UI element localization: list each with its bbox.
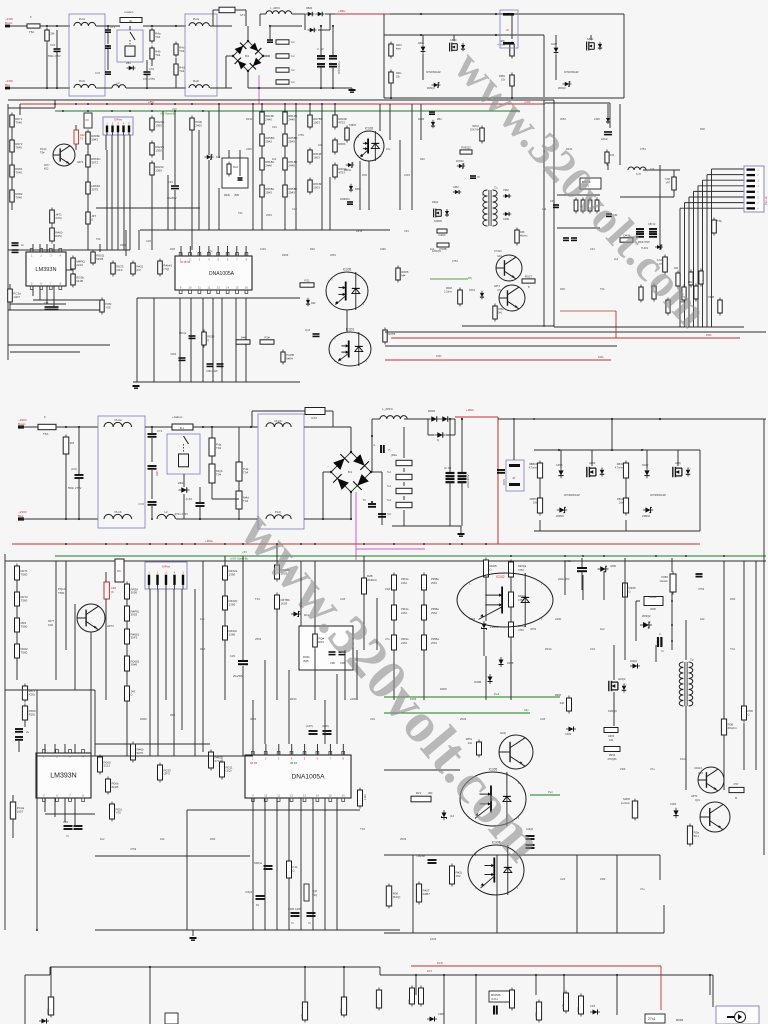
- svg-text:#30b: #30b: [598, 356, 604, 359]
- svg-text:ZB1: ZB1: [126, 61, 131, 65]
- wire corner: [7, 104, 9, 108]
- wire dip4 B: [173, 589, 175, 676]
- svg-text:30#3: 30#3: [91, 137, 98, 141]
- svg-text:R027: R027: [525, 275, 533, 279]
- wire bridge bot: [247, 71, 249, 88]
- svg-text:CM61: CM61: [503, 218, 510, 221]
- wire lm pin t1: [32, 244, 34, 252]
- svg-text:L_APFC: L_APFC: [270, 6, 280, 10]
- wire dna pin t8: [245, 246, 247, 256]
- svg-text:PC1b: PC1b: [40, 147, 47, 151]
- svg-text:M#2B: M#2B: [676, 1018, 683, 1022]
- transistor Q31: [499, 285, 525, 311]
- resistor R072 B: [15, 590, 29, 609]
- filter box PL2: [185, 14, 217, 96]
- junction k1b 2: [671, 624, 673, 626]
- svg-text:550n 275V: 550n 275V: [48, 54, 61, 58]
- wire right v B: [723, 735, 725, 790]
- wire lm pin t3: [46, 244, 48, 252]
- svg-text:K2R0R: K2R0R: [434, 220, 442, 223]
- IC CT1 box B: [299, 626, 353, 670]
- inductor TuH: [628, 167, 646, 170]
- wire C v444: [443, 995, 445, 1024]
- resistor R4a B: [209, 436, 222, 459]
- junction: [415, 974, 417, 976]
- wire gt2 r B: [325, 410, 333, 412]
- svg-text:400V: 400V: [502, 479, 506, 485]
- wire bridge left: [226, 55, 233, 57]
- svg-text:R0Q2: R0Q2: [650, 595, 657, 599]
- resistor Rm1b: [283, 132, 298, 149]
- wire dip3: [117, 135, 119, 186]
- wire opto dn: [368, 161, 370, 210]
- wire CX2 up: [146, 60, 148, 71]
- svg-text:PL1b: PL1b: [79, 79, 86, 83]
- wire CY1 low: [107, 33, 109, 44]
- svg-text:470n 275V: 470n 275V: [174, 512, 188, 516]
- capacitor C15 B: [238, 661, 248, 664]
- svg-text:D#2: D#2: [311, 302, 316, 305]
- svg-text:M9C)a: M9C)a: [254, 861, 262, 865]
- wire A y208: [96, 207, 140, 209]
- svg-text:PL2a: PL2a: [193, 17, 200, 21]
- svg-text:M9C)a: M9C)a: [179, 333, 187, 335]
- junction C rail: [304, 966, 306, 968]
- filter box PL1: [69, 14, 105, 96]
- wire row B744: [95, 743, 210, 745]
- junction green rail A: [202, 110, 204, 112]
- wire C drop l: [304, 967, 306, 1000]
- wire m03: [261, 170, 263, 185]
- svg-text:10k: 10k: [542, 207, 547, 211]
- resistor G4: [682, 285, 686, 303]
- svg-text:3053: 3053: [330, 253, 336, 257]
- svg-text:A#y: A#y: [524, 708, 529, 712]
- wire drop right B: [659, 855, 661, 880]
- junction: [371, 501, 373, 503]
- resistor A62 red: [74, 130, 79, 144]
- diode D806: [421, 44, 426, 54]
- svg-text:C2#: C2#: [540, 717, 546, 721]
- capacitor C302b B: [526, 845, 535, 848]
- junction red rail A: [284, 103, 286, 105]
- junction: [258, 87, 260, 89]
- wire A y230a: [140, 229, 200, 231]
- wire col3: [11, 177, 13, 190]
- capacitor CX2: [144, 72, 151, 74]
- svg-text:G8Q0: G8Q0: [450, 39, 457, 42]
- filter box PL2 B: [258, 414, 304, 529]
- resistor RG3 B: [313, 632, 325, 650]
- wire right v B: [723, 640, 725, 719]
- wire dip2 B: [157, 589, 159, 632]
- svg-text:7u: 7u: [66, 834, 69, 838]
- junction green rail A: [111, 110, 113, 112]
- resistor R66C: [86, 153, 102, 170]
- wire red380 B: [455, 416, 498, 418]
- resistor R21 B: [411, 796, 431, 802]
- wire dna mesh v B: [252, 798, 254, 930]
- svg-text:30F3: 30F3: [131, 636, 138, 640]
- wire sec left edge: [383, 14, 385, 98]
- junction green rail A: [87, 110, 89, 112]
- wire aux v: [607, 104, 609, 118]
- wire fieldv A: [329, 177, 331, 230]
- wire C right drop: [712, 975, 714, 1007]
- svg-text:ZD9Q2: ZD9Q2: [642, 614, 651, 618]
- svg-text:Q31: Q31: [695, 798, 700, 802]
- svg-text:3t7N03WG0Z: 3t7N03WG0Z: [426, 71, 441, 74]
- svg-text:T04: T04: [96, 237, 101, 241]
- wire m02: [261, 146, 263, 158]
- capacitor C7#: [470, 176, 476, 178]
- wire dna pin B3: [278, 744, 280, 755]
- svg-text:C#62: C#62: [453, 186, 459, 189]
- svg-text:40k: 40k: [428, 791, 433, 795]
- resistor K11 B: [287, 859, 298, 881]
- svg-text:(): (): [748, 712, 750, 716]
- wire c87c: [87, 194, 89, 212]
- svg-text:24#0: 24#0: [288, 163, 295, 167]
- wire fieldv A: [379, 104, 381, 131]
- resistor PC3a: [8, 287, 21, 305]
- svg-text:J##: J##: [241, 336, 246, 340]
- resistor H0662: [86, 180, 101, 197]
- inductor PL1a: [74, 22, 96, 26]
- wire lm pin b4 B: [74, 798, 76, 827]
- wire dna mesh v B: [300, 798, 302, 930]
- wire c6 dn: [332, 67, 334, 88]
- junction B ac rail: [151, 518, 153, 520]
- svg-text:C0б1: C0б1: [670, 802, 677, 806]
- svg-text:24#0: 24#0: [265, 163, 272, 167]
- wire right v B: [685, 706, 687, 750]
- svg-text:D9Q2: D9Q2: [630, 659, 638, 663]
- svg-text:(F3: (F3: [136, 268, 141, 272]
- svg-text:4753: 4753: [452, 259, 458, 263]
- resistor P00B: [437, 243, 449, 251]
- svg-text:C2#: C2#: [292, 207, 297, 211]
- svg-text:+5V Stand-By: +5V Stand-By: [160, 113, 176, 116]
- terminal live B: [18, 425, 24, 428]
- svg-text:4753: 4753: [518, 568, 524, 572]
- diode C#0A B: [558, 468, 563, 478]
- resistor G2: [689, 270, 693, 288]
- wire red drop: [615, 311, 617, 338]
- wire fieldv B: [252, 700, 254, 744]
- resistor R011 B: [220, 760, 233, 780]
- wire fieldv A: [218, 104, 220, 158]
- wire right v B: [755, 561, 757, 770]
- wire aux v2: [607, 164, 609, 170]
- wire m13: [284, 170, 286, 185]
- wire zd up B: [485, 577, 487, 621]
- svg-text:47u: 47u: [386, 147, 391, 151]
- resistor R810: [389, 42, 393, 59]
- wire right v B: [582, 575, 584, 600]
- zener ZD803: [432, 83, 441, 88]
- wire vert: [309, 104, 311, 115]
- junction: [151, 426, 153, 428]
- svg-text:R#2: R#2: [310, 247, 315, 251]
- wire row B690: [5, 689, 37, 691]
- svg-text:ZD#01: ZD#01: [490, 625, 499, 629]
- wire R1 down: [46, 43, 48, 88]
- svg-text:DNA1005A: DNA1005A: [292, 774, 326, 781]
- wire c15 dn: [174, 190, 176, 230]
- wire j1 up B: [513, 419, 515, 460]
- wire box bottom: [462, 325, 554, 327]
- junction B rail: [603, 555, 605, 557]
- wire lapfc l B: [372, 418, 380, 420]
- resistor R8B15 B: [537, 461, 542, 481]
- aux connector box: [500, 10, 518, 48]
- wire C top rail right: [380, 974, 713, 976]
- capacitor CX2 B: [196, 503, 205, 506]
- svg-text:GT1: GT1: [240, 13, 246, 17]
- diode D#0B B: [488, 674, 493, 684]
- capacitor CJ B: [497, 470, 505, 473]
- wire stair c2: [685, 202, 745, 204]
- capacitor C)1Z: [313, 334, 320, 336]
- resistor G7: [652, 284, 656, 302]
- svg-text:2503: 2503: [120, 243, 126, 247]
- svg-text:25б3: 25б3: [431, 581, 437, 585]
- svg-text:5#0#: 5#0#: [286, 357, 293, 361]
- svg-text:T30): T30): [717, 220, 722, 223]
- svg-text:C3#6 C2#6: C3#6 C2#6: [206, 371, 218, 373]
- svg-text:7C: 7C: [363, 498, 366, 502]
- wire g2 dn: [511, 86, 513, 98]
- svg-text:ZB1: ZB1: [178, 481, 184, 485]
- capacitor C15: [171, 186, 179, 189]
- IC standby box: [580, 178, 601, 189]
- junction B ac rail: [78, 518, 80, 520]
- svg-text:R843: R843: [617, 462, 624, 466]
- svg-text:P#): P#): [468, 277, 472, 280]
- ground gA2: [133, 386, 140, 388]
- wire row B756: [37, 755, 253, 757]
- svg-text:Blue: Blue: [5, 83, 11, 87]
- resistor R0b: [333, 138, 346, 155]
- junction: [443, 974, 445, 976]
- resistor R963 B: [604, 747, 620, 752]
- junction: [65, 426, 67, 428]
- wire vert: [208, 111, 210, 155]
- svg-text:M#0б: M#0б: [623, 797, 630, 801]
- wire fieldv B: [173, 676, 175, 756]
- bridge rectifier Br1 B: [330, 451, 372, 493]
- svg-text:P37: P37: [734, 782, 739, 786]
- svg-text:5-2: 5-2: [387, 498, 391, 502]
- resistor P2T B: [416, 882, 430, 905]
- junction B top rail: [449, 418, 451, 420]
- diode D962: [503, 194, 511, 198]
- wire vert: [208, 160, 210, 230]
- svg-text:C#1: C#1: [272, 125, 277, 129]
- junction red rail A: [174, 103, 176, 105]
- svg-text:A5T3: A5T3: [691, 794, 698, 798]
- wire bus bottom right B: [384, 854, 660, 856]
- svg-text:R#2Qa: R#2Qa: [518, 564, 527, 568]
- svg-text:T04: T04: [360, 827, 365, 831]
- wire top right drop: [609, 103, 611, 128]
- wire mc1 B: [224, 580, 226, 596]
- svg-text:D#0#: D#0#: [282, 253, 289, 257]
- wire box edge1: [543, 100, 545, 327]
- optocoupler IC301: [329, 328, 371, 367]
- svg-text:R#2: R#2: [420, 157, 425, 161]
- svg-text:(54Q): (54Q): [393, 895, 401, 899]
- svg-text:R21: R21: [416, 791, 422, 795]
- IC DNA1005A U1 B: [245, 752, 351, 802]
- wire dna mesh v B: [324, 798, 326, 930]
- wire field v B: [224, 556, 226, 566]
- svg-text:D6: D6: [86, 118, 90, 122]
- svg-text:4.7w/m: 4.7w/m: [529, 466, 537, 470]
- thermistor GT1: [219, 7, 235, 13]
- wire lm pin b1 A: [32, 286, 34, 296]
- svg-text:IC305: IC305: [343, 268, 352, 272]
- svg-text:M#: M#: [401, 273, 405, 277]
- capacitor Cpfc B: [381, 445, 384, 453]
- wire lowbus1: [679, 208, 681, 327]
- wire v A3: [125, 230, 127, 256]
- wire fieldv B: [149, 610, 151, 756]
- resistor R22b B: [223, 594, 238, 613]
- junction B top rail: [533, 418, 535, 420]
- svg-text:TuH: TuH: [636, 173, 641, 176]
- svg-text:Y05: Y05: [105, 305, 111, 309]
- svg-text:#6ohm: #6ohm: [728, 726, 738, 730]
- svg-text:K2NQ6: K2NQ6: [608, 709, 617, 713]
- wire field v B: [276, 609, 278, 700]
- resistor R66b B: [131, 742, 145, 763]
- svg-text:3t7N03WG0Z: 3t7N03WG0Z: [650, 493, 666, 497]
- wire fieldv B: [74, 604, 76, 690]
- svg-text:1B 2B 3B: 1B 2B 3B: [180, 261, 191, 264]
- svg-text:30T2: 30T2: [91, 160, 98, 164]
- wire vert: [106, 150, 108, 250]
- wire g1 dn: [390, 84, 392, 98]
- svg-text:Brown: Brown: [5, 21, 13, 25]
- wire field v B: [242, 700, 244, 756]
- resistor R8B15b B: [537, 496, 542, 516]
- junction B rail: [242, 543, 244, 545]
- wire dip1 B: [149, 589, 151, 610]
- wire dna mesh v: [153, 298, 155, 382]
- svg-text:PL2b: PL2b: [193, 79, 200, 83]
- svg-text:A#73: A#73: [77, 160, 84, 164]
- mosfet Q800: [450, 43, 458, 52]
- resistor R4d: [174, 62, 185, 78]
- wire row join1: [8, 249, 130, 251]
- svg-text:15б): 15б): [46, 1008, 50, 1014]
- svg-text:~230V: ~230V: [18, 418, 27, 422]
- resistor R4x1 B: [396, 460, 412, 465]
- aux pin bar2: [503, 42, 514, 45]
- resistor RB1: [510, 73, 514, 89]
- capacitor CX1: [54, 49, 61, 51]
- wire C jog: [379, 967, 381, 975]
- inductor PL2b B: [266, 423, 291, 427]
- svg-text:25#3: 25#3: [288, 190, 295, 194]
- svg-text:B: B: [735, 796, 737, 800]
- resistor R06b: [86, 130, 101, 147]
- zener ZD001 B: [482, 621, 487, 631]
- svg-text:C1913: C1913: [694, 766, 702, 770]
- IC LM393N U2 B: [36, 750, 91, 802]
- DIP switch SW1: [103, 117, 133, 135]
- terminal live: [5, 25, 10, 28]
- svg-text:24б3: 24б3: [401, 641, 407, 645]
- svg-text:C.: C.: [659, 632, 662, 636]
- wire bridge top B: [350, 427, 352, 452]
- resistor R60: [50, 226, 63, 244]
- svg-text:G7): G7): [497, 289, 501, 292]
- wire cx2 up B: [199, 487, 201, 502]
- wire to filter2 B: [176, 518, 258, 520]
- wire m04: [261, 197, 263, 230]
- wire a62 dn: [75, 144, 77, 150]
- wire pc10 B: [393, 590, 395, 605]
- svg-text:R#1b: R#1b: [545, 647, 552, 651]
- wire gt2 drop2 B: [332, 411, 334, 427]
- wire bottom right bus: [554, 326, 744, 328]
- capacitor C3#6: [207, 364, 214, 366]
- wire dna mesh v: [221, 298, 223, 382]
- wire dip1: [105, 135, 107, 150]
- capacitor CX1 B: [75, 475, 84, 478]
- wire GT2 left: [213, 9, 219, 11]
- svg-text:0-2: 0-2: [291, 55, 295, 58]
- svg-text:2503: 2503: [400, 837, 407, 841]
- resistor PC3a B: [10, 800, 24, 822]
- wire bridge out: [263, 55, 270, 57]
- wire rc1 B: [510, 607, 512, 622]
- svg-text:T04: T04: [155, 35, 161, 39]
- junction: [332, 87, 334, 89]
- svg-text:1360: 1360: [155, 148, 162, 152]
- svg-text:3t7N03WG0Z: 3t7N03WG0Z: [564, 493, 580, 497]
- wire stair c6: [703, 179, 745, 181]
- svg-text:T04: T04: [179, 69, 185, 73]
- resistor J7: [86, 210, 97, 227]
- wire +380v red: [335, 13, 352, 15]
- resistor P5B1 B: [422, 603, 427, 623]
- svg-text:G33: G33: [698, 771, 703, 775]
- wire g1 v2: [453, 35, 455, 41]
- zener TL431: [655, 245, 663, 249]
- transistor Q73: [53, 144, 75, 166]
- svg-text:10k: 10k: [533, 501, 538, 505]
- wire r4b dn B: [211, 483, 213, 499]
- resistor P05 B: [110, 802, 122, 822]
- zener D12 B: [442, 810, 447, 820]
- ground B2: [190, 938, 197, 940]
- capacitor C2# B: [323, 731, 332, 734]
- wire c5 up: [320, 26, 322, 55]
- wire c87a: [87, 144, 89, 155]
- wire dna mesh v: [202, 298, 204, 382]
- svg-text:M925#K: M925#K: [491, 993, 501, 997]
- resistor R081 B: [15, 616, 28, 635]
- svg-text:C0б): C0б): [534, 1012, 538, 1018]
- wire grp bottom B: [534, 530, 700, 532]
- resistor R4x4 B: [396, 502, 412, 507]
- svg-text:LM393N: LM393N: [50, 773, 76, 780]
- ground B1: [458, 534, 465, 536]
